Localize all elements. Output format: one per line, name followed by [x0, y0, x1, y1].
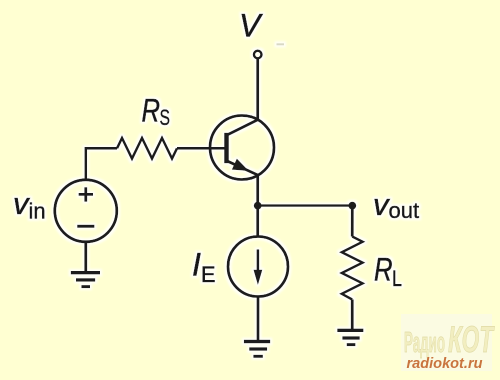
current source I1 circle [228, 237, 288, 297]
svg-text:S: S [160, 105, 171, 130]
wire: emitter down to node A [256, 175, 259, 206]
wire: terminal to collector [256, 58, 259, 120]
wire: resistor to base [177, 147, 227, 150]
svg-text:R: R [142, 93, 161, 129]
wire: current source to ground [257, 297, 260, 342]
supply terminal (open circle) [254, 51, 262, 59]
voltage source plus sign [79, 187, 93, 201]
resistor R_S zigzag [117, 138, 177, 159]
wire: node B down to R_L [351, 206, 354, 237]
current source arrow shaft [257, 250, 260, 273]
svg-text:L: L [392, 266, 402, 291]
ground G1 [71, 271, 100, 274]
wire: node A to node B [258, 204, 353, 206]
resistor R_L zigzag [342, 237, 363, 300]
node B (output junction dot) [348, 202, 356, 210]
wire: R_L to ground [351, 300, 354, 331]
node A (emitter junction dot) [254, 202, 262, 210]
wire: source top corner to resistor [86, 148, 117, 180]
wire: node A down to current source [256, 206, 259, 237]
svg-text:R: R [374, 252, 393, 288]
wire: source bottom to ground [84, 242, 87, 272]
watermark box [401, 314, 492, 371]
current source arrowhead [254, 270, 263, 285]
ground G2 [244, 340, 270, 343]
transistor Q1 emitter arrow [233, 160, 248, 171]
transistor Q1 emitter stroke [227, 161, 258, 175]
svg-text:radiokot.ru: radiokot.ru [407, 355, 483, 372]
transistor Q1 body circle [210, 116, 274, 180]
transistor Q1 base bar [224, 133, 229, 163]
voltage source V1 circle [55, 180, 117, 242]
voltage source minus sign [77, 225, 94, 228]
transistor Q1 collector stroke [227, 120, 258, 136]
ground G3 [337, 329, 363, 332]
svg-text:КОТ: КОТ [448, 319, 495, 360]
watermark logo "Радио КОТ" [404, 319, 495, 360]
faint plus remnant [277, 43, 285, 45]
svg-text:V: V [239, 8, 263, 44]
